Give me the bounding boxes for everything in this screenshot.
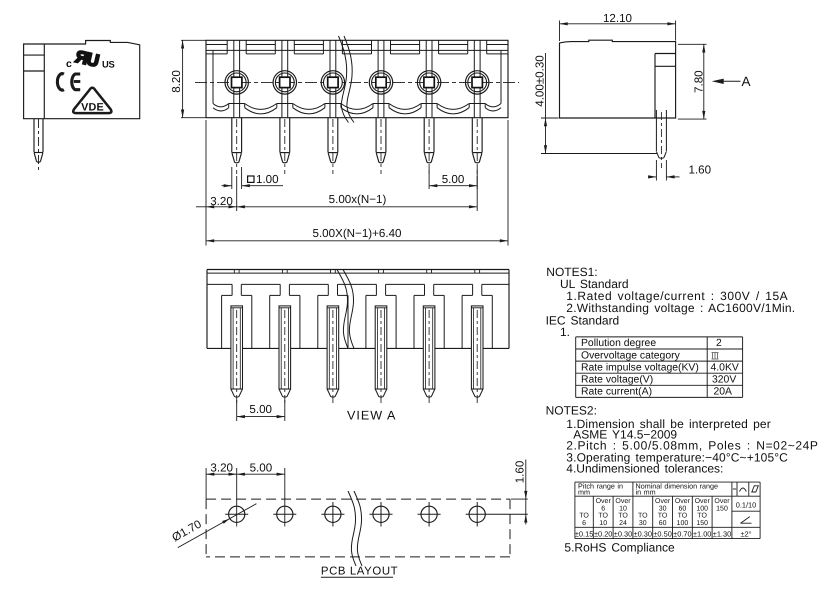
left view pin — [33, 119, 35, 153]
svg-text:30: 30 — [639, 520, 647, 527]
view A third line segments — [207, 283, 232, 285]
pin6 center extension line — [476, 176, 478, 211]
svg-text:VDE: VDE — [81, 102, 104, 114]
svg-text:Over: Over — [615, 498, 631, 505]
svg-text:±1.00: ±1.00 — [693, 530, 711, 539]
dimension 8.20 line — [182, 40, 184, 117]
front view housing outer rect — [206, 40, 508, 117]
side view left column line 1 — [24, 54, 45, 56]
front view pins below housing — [231, 118, 233, 153]
svg-text:±2°: ±2° — [740, 530, 751, 539]
dimension 5.00x(N-1) line — [237, 206, 478, 208]
svg-text:Pollution degree: Pollution degree — [581, 338, 656, 349]
view A dimension 5.00 extension lines — [236, 400, 238, 421]
front view horizontal centerline — [195, 81, 519, 83]
svg-text:in mm: in mm — [636, 488, 656, 497]
view A body bottom line — [207, 347, 509, 349]
dimension 4.00 line — [545, 53, 547, 154]
front view pin centerlines — [236, 119, 238, 174]
housing left extension line — [205, 120, 207, 246]
pcb left extension line — [205, 468, 207, 499]
svg-text:10: 10 — [599, 520, 607, 527]
svg-text:7.80: 7.80 — [693, 70, 706, 93]
right side view pin — [655, 110, 657, 152]
svg-text:150: 150 — [696, 520, 708, 527]
side view left column line 2 — [24, 70, 45, 72]
svg-text:TO: TO — [678, 513, 688, 520]
view A dimension 5.00 line — [237, 416, 285, 418]
dimension 1.60 line — [648, 176, 656, 178]
svg-text:12.10: 12.10 — [603, 12, 632, 25]
svg-text:5.00: 5.00 — [442, 173, 465, 186]
svg-text:5.00x(N−1): 5.00x(N−1) — [329, 193, 387, 206]
svg-text:±0.70: ±0.70 — [673, 530, 691, 539]
svg-text:TO: TO — [618, 513, 628, 520]
dimension 1.00 line and arrows — [222, 185, 232, 187]
svg-text:Rate voltage(V): Rate voltage(V) — [581, 375, 653, 386]
VDE triangle logo — [73, 88, 111, 113]
svg-text:150: 150 — [716, 505, 728, 512]
dimension 8.20 extension lines — [181, 39, 206, 41]
svg-text:5.00: 5.00 — [250, 462, 273, 475]
svg-text:±1.30: ±1.30 — [713, 530, 731, 539]
svg-text:60: 60 — [679, 505, 687, 512]
svg-text:±0.20: ±0.20 — [594, 530, 612, 539]
pcb dimension 1.60 extension lines — [511, 498, 528, 500]
svg-text:Ø1.70: Ø1.70 — [170, 518, 204, 545]
svg-text:30: 30 — [659, 505, 667, 512]
front view top strip line (between tabs lower) — [206, 53, 227, 55]
side view body outline (left view) — [24, 41, 140, 119]
front view terminal squares — [232, 77, 242, 87]
svg-text:1.00: 1.00 — [256, 173, 279, 186]
svg-text:Over: Over — [695, 498, 711, 505]
svg-text:Rate impulse voltage(KV): Rate impulse voltage(KV) — [581, 362, 699, 373]
front view inner side walls — [212, 50, 214, 103]
svg-text:8.20: 8.20 — [170, 70, 183, 93]
svg-text:5.00X(N−1)+6.40: 5.00X(N−1)+6.40 — [313, 227, 402, 240]
svg-text:Over: Over — [596, 498, 612, 505]
front view scallop upper arcs — [213, 104, 501, 110]
svg-text:100: 100 — [677, 520, 689, 527]
svg-text:Over: Over — [675, 498, 691, 505]
dimension 5.00 line — [429, 185, 477, 187]
svg-text:1.60: 1.60 — [514, 461, 527, 484]
svg-text:3.20: 3.20 — [210, 462, 233, 475]
svg-text:NOTES2:: NOTES2: — [546, 404, 597, 418]
svg-text:20A: 20A — [714, 387, 733, 398]
housing right extension line — [507, 120, 509, 246]
dimension 1.60 extension lines — [655, 160, 657, 181]
svg-text:Over: Over — [655, 498, 671, 505]
view A body second line — [207, 272, 509, 274]
svg-text:100: 100 — [696, 505, 708, 512]
svg-text:TO: TO — [638, 513, 648, 520]
tolerance table symbols — [733, 488, 736, 490]
view A top ticks — [233, 270, 235, 274]
dimension 1.00 square symbol — [248, 176, 254, 182]
dimension 3.20 line — [196, 206, 237, 208]
dimension 12.10 extension lines — [559, 21, 561, 42]
svg-text:TO: TO — [658, 513, 668, 520]
svg-text:US: US — [102, 58, 114, 69]
pcb diameter leader line — [178, 504, 257, 548]
pcb layout break line — [348, 491, 356, 566]
svg-text:±0.50: ±0.50 — [653, 530, 671, 539]
svg-text:TO: TO — [697, 513, 707, 520]
pcb dimension 3.20 line — [206, 473, 237, 475]
UL recognized mark — [74, 47, 101, 71]
svg-text:Over: Over — [714, 498, 730, 505]
front view scallop lower arcs — [213, 108, 501, 114]
dimension 12.10 line — [560, 23, 676, 25]
dimension 1.00 extension lines — [231, 167, 233, 189]
svg-text:UR: UR — [74, 47, 101, 71]
pcb layout caption underline — [321, 576, 393, 578]
view A pins — [231, 306, 243, 389]
svg-text:Rate current(A): Rate current(A) — [581, 387, 652, 398]
side view inner wall line — [43, 44, 45, 119]
dimension 4.00 extension lines — [541, 117, 559, 119]
svg-text:6: 6 — [601, 505, 605, 512]
svg-text:A: A — [742, 74, 751, 89]
svg-text:4.0KV: 4.0KV — [711, 362, 739, 373]
svg-text:10: 10 — [619, 505, 627, 512]
svg-text:c: c — [66, 58, 72, 70]
pcb dimension 1.60 line — [525, 460, 527, 525]
front view terminal circles — [225, 71, 248, 94]
front view top inner line — [206, 49, 508, 51]
svg-text:mm: mm — [578, 488, 590, 497]
right side view pin centerline — [660, 112, 662, 168]
front view scallop flats and connectors — [228, 104, 230, 108]
view A break line — [337, 270, 348, 349]
dimension 5.00X(N-1)+6.40 line — [206, 240, 508, 242]
right side view pin block — [654, 54, 656, 119]
svg-text:4.00±0.30: 4.00±0.30 — [534, 55, 547, 107]
svg-text:5.00: 5.00 — [249, 403, 272, 416]
svg-text:6: 6 — [582, 520, 586, 527]
svg-text:24: 24 — [619, 520, 627, 527]
dimension 7.80 line — [703, 44, 705, 119]
front view pin shanks — [233, 40, 235, 117]
pcb layout dashed outline — [206, 498, 510, 500]
svg-text:Overvoltage category: Overvoltage category — [581, 350, 681, 361]
tolerance table grid — [575, 481, 760, 483]
dimension 5.00 pins extension lines — [428, 167, 430, 189]
iec table grid — [576, 336, 743, 338]
svg-text:60: 60 — [659, 520, 667, 527]
left view pin centerline — [38, 119, 40, 171]
CE mark letter C — [57, 74, 64, 90]
svg-text:1.: 1. — [560, 325, 570, 339]
pcb dimension 5.00 line — [237, 473, 285, 475]
svg-text:PCB LAYOUT: PCB LAYOUT — [321, 566, 398, 578]
svg-text:±0.30: ±0.30 — [614, 530, 632, 539]
svg-text:0.1/10: 0.1/10 — [736, 501, 757, 510]
pcb layout holes — [229, 506, 245, 522]
svg-text:4.Undimensioned tolerances:: 4.Undimensioned tolerances: — [566, 462, 723, 476]
svg-text:1.60: 1.60 — [689, 164, 712, 177]
svg-text:VIEW A: VIEW A — [347, 409, 396, 423]
view A body top line — [207, 269, 509, 271]
svg-text:TO: TO — [579, 513, 589, 520]
view A T-slots — [231, 284, 233, 295]
CE mark letter E — [72, 74, 80, 90]
front view top tabs verticals — [226, 40, 228, 54]
front view top strip line (between tabs upper) — [206, 44, 227, 46]
view A body sides — [206, 270, 208, 349]
svg-text:IEC Standard: IEC Standard — [546, 313, 620, 327]
svg-text:320V: 320V — [712, 375, 736, 386]
view arrow A — [712, 79, 724, 84]
svg-text:±0.30: ±0.30 — [634, 530, 652, 539]
right side view body outline — [560, 40, 676, 118]
svg-text:5.RoHS Compliance: 5.RoHS Compliance — [564, 541, 675, 555]
dimension 7.80 extension lines — [678, 43, 707, 45]
svg-text:2: 2 — [716, 338, 722, 349]
svg-text:±0.15: ±0.15 — [575, 530, 593, 539]
front view break line — [339, 36, 349, 123]
pin1 center extension line — [236, 176, 238, 211]
svg-text:TO: TO — [598, 513, 608, 520]
